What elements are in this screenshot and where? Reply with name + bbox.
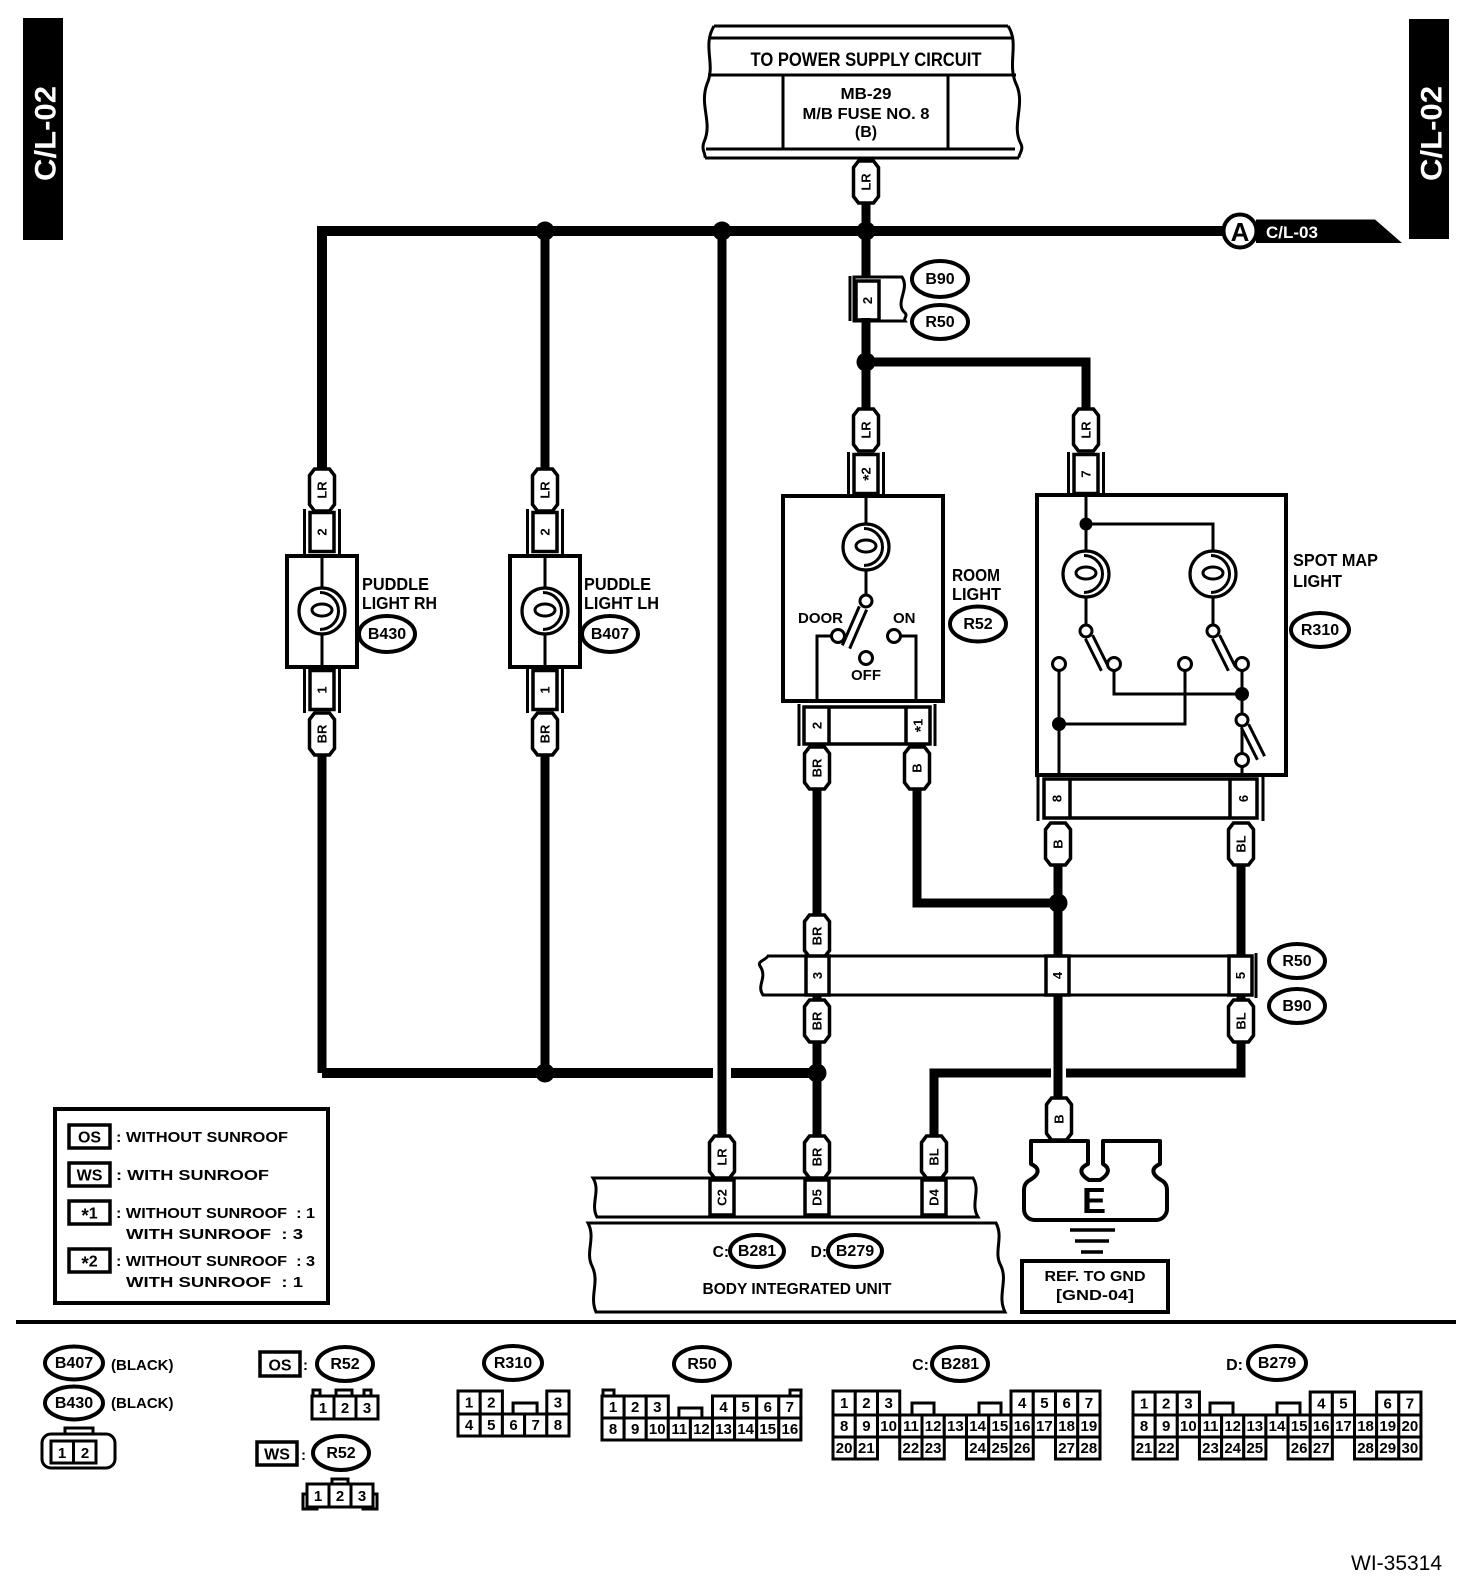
spot map light body R310 (1037, 495, 1286, 775)
node bus / fuse (857, 222, 876, 241)
svg-text:7: 7 (532, 1417, 540, 1434)
bus wire from fuse (322, 231, 1224, 472)
svg-text:B407: B407 (55, 1355, 93, 1372)
connector row spot map pins 8 and 6 (1038, 776, 1263, 821)
legend WS with sunroof (69, 1163, 269, 1186)
svg-text:BL: BL (1234, 835, 1249, 852)
wire fuse output LR (862, 203, 871, 233)
svg-text:5: 5 (1233, 972, 1248, 979)
svg-text:LR: LR (538, 481, 553, 499)
svg-text:2: 2 (336, 1488, 344, 1505)
wire band pin4 to ground pill (1054, 995, 1063, 1100)
switch lever room light (846, 608, 863, 647)
wire switch2 contact to node (1241, 670, 1244, 722)
svg-text:26: 26 (1014, 1440, 1031, 1457)
svg-text:B: B (910, 763, 925, 772)
svg-text:5: 5 (741, 1399, 749, 1416)
svg-text:LIGHT RH: LIGHT RH (362, 593, 437, 613)
wire color label BR (puddle LH) (533, 713, 558, 755)
svg-text:: WITHOUT SUNROOF: : WITHOUT SUNROOF (116, 1129, 288, 1146)
wire BR to body unit D5 (813, 1042, 822, 1136)
svg-text:8: 8 (840, 1418, 848, 1435)
svg-text:OS: OS (268, 1358, 291, 1375)
svg-text:26: 26 (1291, 1440, 1308, 1457)
legend *1 (69, 1201, 315, 1243)
svg-text:B: B (1052, 1114, 1067, 1123)
svg-text:4: 4 (1018, 1395, 1027, 1412)
svg-text::: : (301, 1447, 306, 1464)
svg-text:9: 9 (1162, 1418, 1170, 1435)
svg-text:5: 5 (1339, 1396, 1347, 1413)
svg-text:LR: LR (315, 481, 330, 499)
svg-text:R52: R52 (330, 1356, 359, 1373)
bulb room light (843, 524, 889, 570)
svg-text:12: 12 (693, 1421, 710, 1438)
wire band pin5 stub (1237, 995, 1246, 1001)
svg-text:B430: B430 (55, 1395, 93, 1412)
wire room light door contact to pin 2 (817, 636, 832, 701)
wire color label BR (body unit D5) (805, 1136, 830, 1178)
connector ref R52 WS (pinout) (313, 1436, 369, 1470)
wire color label BL (below band) (1229, 1000, 1254, 1042)
inline connector band R50/B90 pins 3 4 5 (759, 953, 1256, 998)
bulb spot map 1 (1063, 551, 1109, 597)
svg-text:: WITHOUT SUNROOF : 3: : WITHOUT SUNROOF : 3 (116, 1253, 315, 1270)
puddle light LH body B407 (510, 556, 580, 667)
legend *2 (69, 1249, 315, 1291)
svg-text:B430: B430 (368, 626, 406, 643)
svg-text:B90: B90 (1282, 998, 1311, 1015)
connector pin 7 (spot map light) (1074, 455, 1098, 494)
svg-text:5: 5 (1040, 1395, 1048, 1412)
connector pinout R52 WS 3-pin (303, 1479, 377, 1509)
connector row room light pins 2 and *1 (799, 704, 935, 746)
svg-text:BR: BR (810, 1011, 825, 1030)
svg-text:10: 10 (880, 1418, 897, 1435)
wire spot map pin 7 into box (1085, 495, 1088, 524)
svg-text:3: 3 (884, 1395, 892, 1412)
wire bulb1 to switch1 (1085, 597, 1088, 625)
svg-text:REF. TO GND: REF. TO GND (1045, 1268, 1146, 1285)
svg-text:BR: BR (810, 1147, 825, 1166)
svg-text:LR: LR (1079, 421, 1094, 439)
svg-text:LIGHT: LIGHT (952, 584, 1001, 604)
wire color label BL (spot map pin 6) (1229, 823, 1254, 865)
svg-text:R52: R52 (326, 1445, 355, 1462)
svg-text:23: 23 (1202, 1440, 1219, 1457)
svg-text:(BLACK): (BLACK) (111, 1395, 173, 1412)
connector ref R50 (band) (1269, 944, 1325, 978)
svg-text:BR: BR (315, 724, 330, 743)
wire spot map pin 8 branch (1058, 670, 1061, 775)
svg-text:LR: LR (715, 1148, 730, 1166)
svg-text:BR: BR (538, 724, 553, 743)
ground bus wire right segment (731, 1068, 817, 1078)
contact spot map switch 2 (1236, 658, 1249, 671)
svg-text:16: 16 (1313, 1418, 1330, 1435)
svg-text:17: 17 (1036, 1418, 1053, 1435)
svg-text:10: 10 (649, 1421, 666, 1438)
wire node to switch3 (1241, 694, 1244, 760)
svg-text:19: 19 (1081, 1418, 1098, 1435)
svg-text:B: B (1051, 839, 1066, 848)
wire puddle RH to ground bus (318, 755, 327, 1073)
svg-text:6: 6 (1062, 1395, 1070, 1412)
svg-text:E: E (1082, 1180, 1106, 1221)
connector ref B281 (pinout) (932, 1347, 988, 1381)
svg-text:PUDDLE: PUDDLE (362, 574, 429, 594)
legend tag WS : R52 (257, 1442, 306, 1465)
wire color label LR (room light) (854, 409, 879, 451)
switch contact OFF (860, 652, 873, 665)
node bus / body unit C2 (713, 222, 732, 241)
connector pin 1 (puddle LH) (533, 671, 557, 710)
svg-text:WITH SUNROOF : 1: WITH SUNROOF : 1 (126, 1274, 303, 1291)
svg-text:BODY INTEGRATED UNIT: BODY INTEGRATED UNIT (703, 1281, 892, 1298)
svg-text:[GND-04]: [GND-04] (1056, 1287, 1134, 1304)
wire color label B (ground) (1047, 1098, 1072, 1140)
wire room light pin 2 down (813, 789, 822, 917)
svg-text:2: 2 (1162, 1396, 1170, 1413)
wire node to spot map light (866, 362, 1086, 409)
switch pivot spot map 2 (1207, 625, 1219, 637)
svg-text:16: 16 (1014, 1418, 1031, 1435)
wire bus to puddle LH pin 2 (541, 231, 550, 513)
connector rails spot map pin 7 (1069, 452, 1104, 497)
svg-text:18: 18 (1058, 1418, 1075, 1435)
connector pinout B281 (833, 1391, 1100, 1459)
connector arrow A to C/L-03 (1224, 215, 1403, 248)
wire spot map branch to bulb 2 (1086, 524, 1213, 551)
svg-text:3: 3 (653, 1399, 661, 1416)
svg-text:R50: R50 (687, 1356, 716, 1373)
svg-text:1: 1 (609, 1399, 617, 1416)
power supply banner MB-29 M/B fuse no.8 (703, 26, 1022, 158)
svg-text:25: 25 (992, 1440, 1009, 1457)
wire spot map pin 8 to node (1054, 865, 1063, 957)
wire puddle LH to ground bus (541, 755, 550, 1077)
wire BL to body unit D4 (934, 1073, 1051, 1136)
svg-text::: : (303, 1357, 308, 1374)
svg-text:13: 13 (715, 1421, 732, 1438)
svg-text:4: 4 (1050, 971, 1065, 979)
svg-text:2: 2 (810, 722, 825, 729)
node ground join B wires (1049, 894, 1068, 913)
connector B90/R50 pin 2 (half flag) (850, 276, 906, 321)
wire spot map to bulb 1 (1085, 524, 1088, 551)
svg-text:2: 2 (862, 1395, 870, 1412)
svg-text:27: 27 (1058, 1440, 1075, 1457)
svg-text:BL: BL (1234, 1012, 1249, 1029)
contact spot map pin8 branch (1053, 658, 1066, 671)
svg-text:13: 13 (947, 1418, 964, 1435)
wire color label BR (puddle RH) (310, 713, 335, 755)
ground clamp E (1024, 1141, 1167, 1221)
svg-text:4: 4 (719, 1399, 728, 1416)
wire color label LR (puddle LH) (533, 469, 558, 511)
connector ref B407 (pinout) (45, 1347, 103, 1380)
svg-text:BR: BR (810, 926, 825, 945)
bulb puddle light LH (522, 588, 568, 634)
svg-text:7: 7 (1079, 470, 1094, 477)
svg-text:WITH SUNROOF : 3: WITH SUNROOF : 3 (126, 1226, 303, 1243)
connector rails puddle RH pin 1 (305, 667, 340, 713)
svg-text:2: 2 (341, 1400, 349, 1417)
svg-text:4: 4 (465, 1417, 474, 1434)
svg-text:B281: B281 (738, 1243, 776, 1260)
svg-text:6: 6 (764, 1399, 772, 1416)
svg-text:11: 11 (671, 1421, 687, 1438)
svg-text:24: 24 (969, 1440, 986, 1457)
svg-text:2: 2 (631, 1399, 639, 1416)
svg-text:8: 8 (554, 1417, 562, 1434)
wire color label LR (fuse) (854, 161, 879, 203)
contact spot map switch 1 (1108, 658, 1121, 671)
svg-text:(BLACK): (BLACK) (111, 1357, 173, 1374)
svg-text:C2: C2 (715, 1189, 730, 1206)
svg-text:OS: OS (78, 1130, 101, 1147)
svg-text:2: 2 (538, 528, 553, 535)
connector ref R50 (pinout) (674, 1347, 730, 1381)
svg-text:BR: BR (810, 758, 825, 777)
svg-text:DOOR: DOOR (798, 610, 843, 627)
connector pin 2 (puddle RH) (310, 513, 334, 552)
svg-text:8: 8 (1050, 795, 1065, 802)
svg-text:16: 16 (782, 1421, 799, 1438)
svg-text:LR: LR (859, 421, 874, 439)
svg-text:19: 19 (1379, 1418, 1396, 1435)
svg-text:28: 28 (1357, 1440, 1374, 1457)
svg-text:28: 28 (1081, 1440, 1098, 1457)
wire bus to body unit C2 (718, 231, 727, 1136)
svg-text:11: 11 (1203, 1418, 1219, 1435)
node spot map switch2 / switch3 (1235, 687, 1249, 701)
svg-text:14: 14 (969, 1418, 986, 1435)
puddle light RH body B430 (287, 556, 357, 667)
svg-text:WI-35314: WI-35314 (1351, 1552, 1442, 1575)
svg-text:3: 3 (554, 1395, 562, 1412)
switch lever spot map 1 (1089, 637, 1105, 669)
svg-text:21: 21 (1136, 1440, 1153, 1457)
svg-text:27: 27 (1313, 1440, 1330, 1457)
legend OS without sunroof (69, 1125, 288, 1148)
room light body R52 (783, 496, 943, 701)
connector ref B430 (pinout) (45, 1387, 103, 1420)
svg-text:1: 1 (1140, 1396, 1148, 1413)
svg-text:25: 25 (1246, 1440, 1263, 1457)
wire color label LR (body unit C2) (710, 1136, 735, 1178)
svg-text:MB-29: MB-29 (841, 86, 892, 103)
page tag C/L-02 left (23, 18, 63, 240)
svg-text:ROOM: ROOM (952, 565, 1000, 585)
svg-text:3: 3 (363, 1400, 371, 1417)
svg-text:B279: B279 (1258, 1355, 1296, 1372)
svg-text:8: 8 (1140, 1418, 1148, 1435)
svg-text:6: 6 (1236, 795, 1251, 802)
svg-text:9: 9 (631, 1421, 639, 1438)
svg-text:R50: R50 (1282, 953, 1311, 970)
connector pinout R52 OS 3-pin (312, 1390, 378, 1419)
connector ref B407 (582, 616, 638, 652)
svg-text:R310: R310 (1301, 622, 1339, 639)
node room light / spot map light (857, 353, 876, 372)
svg-text:18: 18 (1357, 1418, 1374, 1435)
svg-text:M/B FUSE NO. 8: M/B FUSE NO. 8 (803, 106, 930, 123)
connector ref R310 (diagram) (1291, 613, 1349, 647)
svg-text:15: 15 (759, 1421, 776, 1438)
svg-text:: WITHOUT SUNROOF : 1: : WITHOUT SUNROOF : 1 (116, 1205, 315, 1222)
connector pinout B407/B430 2-pin (42, 1428, 115, 1468)
svg-text:24: 24 (1224, 1440, 1241, 1457)
wire color label B (spot map pin 8) (1046, 823, 1071, 865)
svg-text:LIGHT LH: LIGHT LH (584, 593, 659, 613)
node spot map bulbs (1080, 518, 1093, 531)
wire bus to connector B90/R50 (862, 231, 871, 280)
svg-text:1: 1 (58, 1445, 66, 1462)
connector ref B281 (body unit) (730, 1235, 784, 1267)
svg-text:C/L-02: C/L-02 (1416, 86, 1449, 181)
svg-text:B407: B407 (591, 626, 629, 643)
svg-text:22: 22 (1158, 1440, 1175, 1457)
svg-text:C/L-03: C/L-03 (1266, 223, 1318, 242)
switch pivot spot map 1 (1080, 625, 1092, 637)
connector ref B90 (912, 261, 968, 297)
page tag C/L-02 right (1409, 19, 1449, 239)
svg-text:4: 4 (1317, 1396, 1326, 1413)
svg-text:7: 7 (1085, 1395, 1093, 1412)
switch contact ON (888, 630, 901, 643)
svg-text:SPOT MAP: SPOT MAP (1293, 550, 1378, 570)
svg-text:TO POWER SUPPLY CIRCUIT: TO POWER SUPPLY CIRCUIT (751, 50, 982, 71)
svg-text:11: 11 (903, 1418, 919, 1435)
svg-text:2: 2 (860, 297, 875, 304)
svg-text:ON: ON (893, 610, 916, 627)
node bus / puddle LH (536, 222, 555, 241)
ground reference box GND-04 (1022, 1261, 1168, 1312)
svg-text:3: 3 (1184, 1396, 1192, 1413)
svg-text:2: 2 (487, 1395, 495, 1412)
svg-text:C:: C: (912, 1357, 929, 1374)
wire room light pin *1 to ground node (917, 789, 1062, 903)
contact spot map center (1179, 658, 1192, 671)
switch lever spot map 3 (1245, 726, 1261, 758)
legend box (55, 1109, 328, 1303)
switch pivot spot map 3 (1236, 714, 1248, 726)
svg-text:PUDDLE: PUDDLE (584, 574, 651, 594)
node BR / puddle ground bus (808, 1064, 827, 1083)
svg-text:R50: R50 (925, 314, 954, 331)
svg-text:D5: D5 (810, 1189, 825, 1206)
separator line (16, 1320, 1456, 1324)
svg-text:17: 17 (1335, 1418, 1352, 1435)
svg-text:1: 1 (840, 1395, 848, 1412)
wire node to room light (862, 362, 871, 409)
connector rails room light pin *2 (849, 452, 884, 497)
svg-text:(B): (B) (855, 124, 877, 141)
svg-text:14: 14 (1269, 1418, 1286, 1435)
svg-text:12: 12 (1224, 1418, 1241, 1435)
body integrated unit connector row C2 D5 D4 (593, 1178, 978, 1217)
svg-text:LR: LR (859, 173, 874, 191)
svg-text:13: 13 (1246, 1418, 1263, 1435)
wire band pin3 stub (813, 995, 822, 1001)
wire bus to puddle RH pin 2 (short) (318, 469, 327, 513)
wire BL corner right segment (1066, 1042, 1241, 1073)
wire color label B (room light pin *1) (905, 747, 930, 789)
wire switch1 contact to node (1114, 670, 1242, 694)
wire bulb2 to switch2 (1212, 597, 1215, 625)
wire color label LR (spot map light) (1074, 409, 1099, 451)
contact spot map switch 3 (1236, 754, 1249, 767)
wire spot map pin 6 down (1237, 865, 1246, 957)
svg-text:D:: D: (1226, 1357, 1243, 1374)
connector ref R310 (pinout) (484, 1346, 542, 1380)
svg-text:6: 6 (1384, 1396, 1392, 1413)
svg-text:6: 6 (509, 1417, 517, 1434)
wire room light on contact to pin *1 (900, 636, 916, 701)
switch pivot room light (860, 595, 872, 607)
wire color label BR (above R50/B90) (805, 915, 830, 957)
connector pinout R310 (458, 1391, 569, 1436)
connector pin *2 (room light) (854, 455, 878, 494)
svg-text:R310: R310 (494, 1355, 532, 1372)
svg-text:: WITH SUNROOF: : WITH SUNROOF (116, 1167, 269, 1184)
ground earth hatching (1070, 1230, 1115, 1252)
svg-text:14: 14 (737, 1421, 754, 1438)
svg-text:C/L-02: C/L-02 (30, 86, 63, 181)
svg-text:3: 3 (358, 1488, 366, 1505)
svg-text:15: 15 (1291, 1418, 1308, 1435)
connector ref B279 (body unit) (828, 1235, 882, 1267)
svg-text:OFF: OFF (851, 667, 881, 684)
connector rails puddle RH pin 2 (305, 509, 340, 556)
connector pin 1 (puddle RH) (310, 671, 334, 710)
svg-text:2: 2 (315, 528, 330, 535)
connector rails puddle LH pin 1 (528, 667, 563, 713)
connector pinout R50 (602, 1390, 801, 1440)
svg-text:1: 1 (465, 1395, 473, 1412)
svg-text:LIGHT: LIGHT (1293, 571, 1342, 591)
svg-text:2: 2 (81, 1445, 89, 1462)
connector ref R52 OS (pinout) (317, 1347, 373, 1381)
connector ref B279 (pinout) (1248, 1346, 1306, 1380)
switch lever spot map 2 (1216, 637, 1232, 669)
svg-text:WS: WS (264, 1447, 290, 1464)
svg-text:C:: C: (713, 1244, 729, 1261)
bulb spot map 2 (1190, 551, 1236, 597)
svg-text:22: 22 (903, 1440, 920, 1457)
ground bus wire left segment (322, 1068, 713, 1078)
body integrated unit body (588, 1223, 1005, 1312)
svg-text:B281: B281 (941, 1356, 979, 1373)
svg-text:20: 20 (836, 1440, 853, 1457)
switch contact DOOR (832, 630, 845, 643)
svg-text:B90: B90 (925, 271, 954, 288)
svg-text:A: A (1231, 217, 1250, 247)
legend tag OS : R52 (260, 1352, 308, 1376)
svg-text:3: 3 (810, 972, 825, 979)
connector ref R52 (950, 607, 1006, 642)
connector ref B90 (band) (1269, 989, 1325, 1023)
wire color label BL (body unit D4) (922, 1136, 947, 1178)
wire color label BR (room light pin 2) (805, 747, 830, 789)
svg-text:21: 21 (858, 1440, 875, 1457)
connector pinout B279 (1133, 1392, 1421, 1459)
svg-text:8: 8 (609, 1421, 617, 1438)
svg-text:D:: D: (811, 1244, 827, 1261)
svg-text:12: 12 (925, 1418, 942, 1435)
wire connector 2 to node (862, 318, 871, 366)
